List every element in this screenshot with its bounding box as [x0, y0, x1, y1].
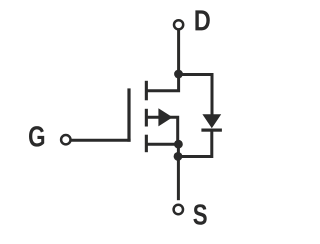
- MOSFET channel bar source segment: [145, 135, 148, 153]
- terminal label S: [193, 204, 206, 225]
- body diode: [178, 114, 222, 156]
- wire source stub to channel: [146, 143, 178, 146]
- wire gate terminal to gate electrode: [71, 139, 131, 142]
- MOSFET gate electrode: [127, 88, 130, 141]
- terminal label G: [29, 126, 44, 147]
- drain terminal circle: [174, 20, 183, 29]
- wire drain node to diode cathode side: [179, 75, 213, 115]
- source terminal circle: [174, 205, 183, 214]
- junction dot source-body node: [174, 140, 183, 149]
- MOSFET channel bar body segment: [145, 109, 148, 127]
- MOSFET body arrowhead: [158, 108, 172, 126]
- MOSFET channel bar drain segment: [145, 81, 148, 101]
- terminal label D: [195, 10, 209, 30]
- junction dot drain node: [174, 70, 183, 79]
- gate terminal circle: [61, 135, 70, 144]
- wire drain vertical and stub to channel: [146, 30, 179, 91]
- wire source vertical: [177, 144, 180, 200]
- MOSFET body arrow wire: [148, 117, 178, 144]
- junction dot source-diode node: [174, 152, 183, 161]
